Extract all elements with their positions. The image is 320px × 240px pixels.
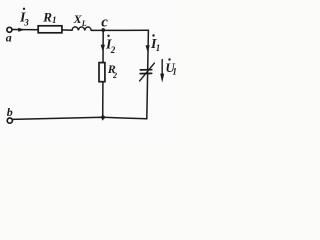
svg-text:3: 3 (23, 18, 29, 28)
svg-text:c: c (101, 15, 108, 31)
svg-text:b: b (7, 105, 13, 119)
svg-text:2: 2 (110, 45, 116, 55)
svg-text:2: 2 (112, 71, 117, 80)
svg-text:a: a (6, 31, 12, 45)
svg-text:1: 1 (156, 43, 161, 53)
svg-text:L: L (81, 19, 87, 28)
svg-text:R: R (42, 9, 52, 24)
svg-text:1: 1 (172, 67, 177, 77)
svg-text:1: 1 (52, 15, 57, 25)
